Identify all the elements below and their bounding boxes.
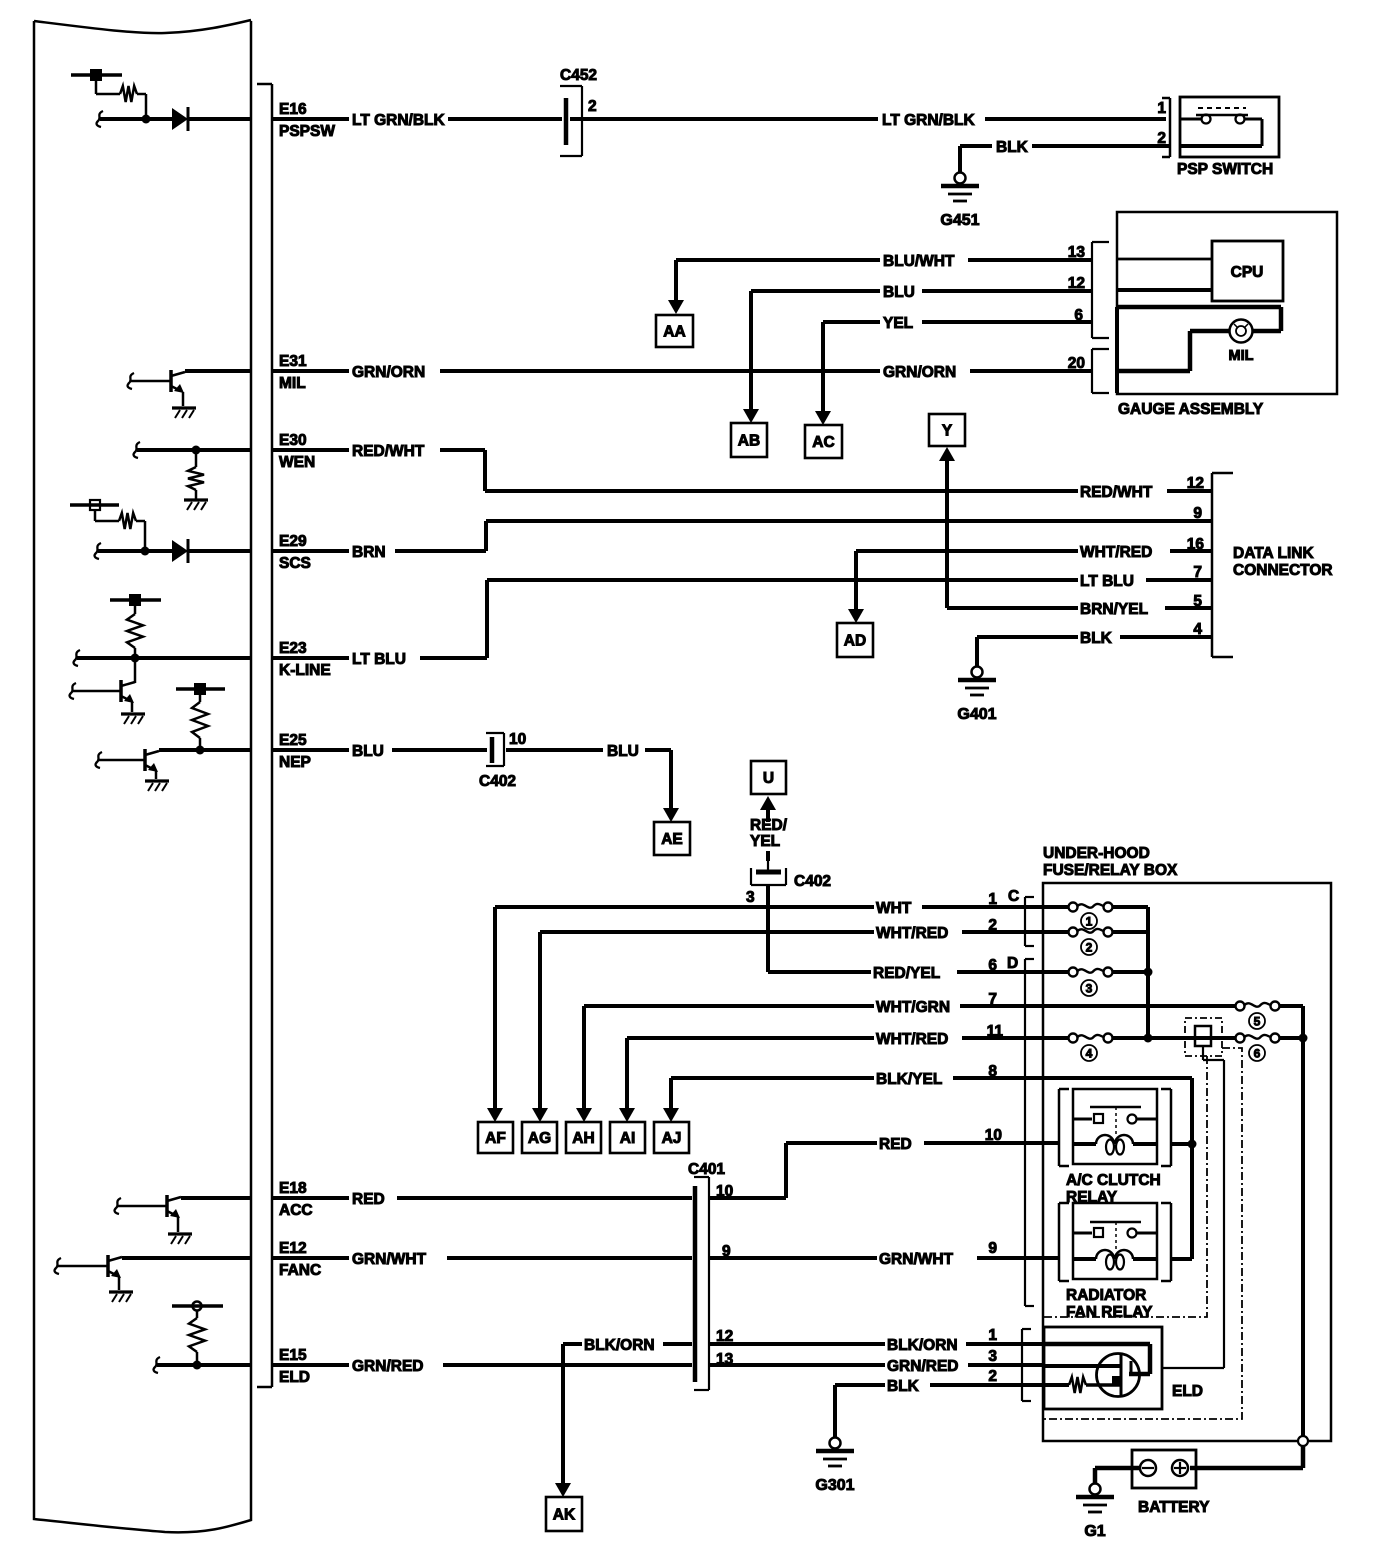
svg-text:E25: E25: [279, 732, 307, 749]
connector AB: [731, 423, 767, 457]
svg-text:MIL: MIL: [1229, 348, 1254, 364]
DLC pin numbers: [1187, 475, 1205, 638]
wire BLU from E25: [273, 743, 487, 760]
svg-text:10: 10: [509, 731, 526, 748]
svg-text:LT BLU: LT BLU: [352, 651, 406, 668]
wire YEL to gauge pin 6: [823, 315, 1092, 332]
svg-text:AK: AK: [553, 1507, 576, 1524]
BLK/YEL bus to relay coils: [1188, 1078, 1197, 1259]
wire LT BLU from E23 to DLC pin 7: [273, 573, 1212, 668]
svg-text:G1: G1: [1084, 1523, 1105, 1540]
transistor driving pin E31 (MIL): [128, 370, 251, 406]
MIL lamp circuit wiring: [1117, 307, 1281, 371]
wire BLU/WHT to gauge pin 13: [676, 253, 1092, 270]
connector C bracket: [1008, 888, 1034, 946]
svg-text:C402: C402: [794, 873, 831, 890]
connector AA: [656, 315, 693, 347]
gauge connector bracket (pins 13,12,6): [1092, 242, 1109, 338]
svg-text:AE: AE: [661, 831, 683, 848]
svg-text:BLK: BLK: [1080, 630, 1113, 647]
connector AK: [546, 1497, 582, 1531]
svg-text:3: 3: [1086, 982, 1093, 996]
fuse 4: [1069, 1034, 1241, 1062]
PSP SWITCH: [1177, 97, 1279, 178]
wire RED/YEL to fuse box pin 6: [768, 885, 1070, 982]
pin E15 (ELD): [279, 1347, 310, 1386]
PSP SWITCH connector pins 1,2: [1157, 98, 1170, 157]
svg-text:2: 2: [588, 98, 597, 115]
DATA LINK CONNECTOR bracket: [1212, 473, 1333, 657]
arrow to AA: [668, 260, 684, 314]
wire RED from E18 via C401 pin 10: [273, 1127, 1059, 1208]
svg-text:6: 6: [1254, 1047, 1261, 1061]
svg-text:C452: C452: [560, 67, 597, 84]
svg-text:C: C: [1008, 888, 1019, 905]
svg-text:E29: E29: [279, 533, 307, 550]
svg-text:7: 7: [1193, 564, 1202, 581]
pin E30 (WEN): [279, 432, 315, 471]
svg-text:E23: E23: [279, 640, 307, 657]
internal pull-up and diode for pin E16: [71, 69, 251, 131]
connector AC: [805, 425, 842, 458]
connector U: [751, 761, 786, 794]
svg-text:LT GRN/BLK: LT GRN/BLK: [882, 112, 976, 129]
svg-text:GRN/RED: GRN/RED: [887, 1358, 958, 1375]
wire BLU to AE: [506, 743, 679, 822]
svg-text:BLK/YEL: BLK/YEL: [876, 1071, 942, 1088]
svg-text:BLK: BLK: [996, 139, 1029, 156]
wire battery negative to G1: [1095, 1468, 1140, 1483]
svg-text:WHT/RED: WHT/RED: [876, 1031, 948, 1048]
svg-text:AI: AI: [620, 1130, 636, 1147]
svg-text:E30: E30: [279, 432, 307, 449]
svg-text:12: 12: [1187, 475, 1204, 492]
wire BLK/ORN via C401 pin 12 to ELD pin 1: [563, 1327, 1043, 1354]
svg-text:10: 10: [985, 1127, 1002, 1144]
svg-text:BLU: BLU: [352, 743, 384, 760]
svg-text:BLU/WHT: BLU/WHT: [883, 253, 955, 270]
wire LT GRN/BLK from E16: [273, 112, 562, 129]
sense resistor on pin E15 (ELD): [154, 1302, 251, 1374]
connector D bracket: [1007, 955, 1034, 1306]
svg-text:PSPSW: PSPSW: [279, 123, 335, 140]
svg-text:GRN/ORN: GRN/ORN: [883, 364, 956, 381]
svg-text:2: 2: [1086, 941, 1093, 955]
svg-text:8: 8: [988, 1063, 997, 1080]
wire BLK from PSP switch pin 2: [960, 139, 1170, 172]
svg-text:1: 1: [1086, 915, 1093, 929]
ECM/PCM torn-edge box: [34, 20, 251, 1532]
svg-text:WHT/GRN: WHT/GRN: [876, 999, 950, 1016]
svg-text:20: 20: [1068, 355, 1085, 372]
svg-text:G451: G451: [940, 212, 979, 229]
connector AH: [566, 1122, 601, 1153]
ground (E12 emitter): [109, 1292, 133, 1302]
RADIATOR FAN RELAY: [1059, 1203, 1192, 1321]
ELD unit: [1044, 1327, 1203, 1409]
svg-text:AJ: AJ: [662, 1130, 682, 1147]
wire RED/YEL up to U: [750, 796, 788, 870]
internal pull-up and diode for pin E29: [70, 500, 251, 563]
svg-text:12: 12: [1068, 275, 1085, 292]
wire WHT/RED to fuse box pin 11: [627, 1031, 1070, 1048]
svg-text:DATA LINK: DATA LINK: [1233, 545, 1314, 562]
svg-text:RED/: RED/: [750, 817, 788, 834]
svg-text:YEL: YEL: [883, 315, 913, 332]
pin E25 (NEP): [279, 732, 311, 771]
svg-text:RED: RED: [352, 1191, 385, 1208]
svg-text:4: 4: [1086, 1047, 1093, 1061]
svg-text:YEL: YEL: [750, 833, 780, 850]
ground G1: [1076, 1484, 1114, 1541]
svg-text:E16: E16: [279, 101, 307, 118]
svg-text:WHT/RED: WHT/RED: [876, 925, 948, 942]
svg-text:RADIATOR: RADIATOR: [1066, 1287, 1146, 1304]
svg-text:2: 2: [988, 917, 997, 934]
arrow to AJ: [663, 1078, 679, 1122]
fuse 5: [1236, 1002, 1304, 1030]
connector AE: [654, 822, 690, 855]
svg-text:11: 11: [987, 1023, 1004, 1040]
svg-text:RED: RED: [879, 1136, 912, 1153]
svg-text:G401: G401: [957, 706, 996, 723]
svg-text:FUSE/RELAY BOX: FUSE/RELAY BOX: [1043, 862, 1178, 879]
transistor driving pin E18 (ACC): [115, 1195, 251, 1232]
connector Y: [929, 414, 965, 446]
svg-text:E18: E18: [279, 1180, 307, 1197]
arrow to AB: [743, 291, 759, 423]
svg-text:RED/WHT: RED/WHT: [1080, 484, 1153, 501]
fuse 2: [1043, 928, 1148, 956]
connector C402 pin 10: [479, 731, 526, 790]
svg-text:WHT: WHT: [876, 900, 912, 917]
svg-text:RED/WHT: RED/WHT: [352, 443, 425, 460]
svg-text:MIL: MIL: [279, 375, 306, 392]
connector C401: [688, 1161, 734, 1390]
wire GRN/WHT from E12 via C401 pin 9: [273, 1240, 1059, 1268]
sensor to ELD link: [1162, 1046, 1224, 1368]
svg-text:K-LINE: K-LINE: [279, 662, 331, 679]
GAUGE ASSEMBLY box: [1117, 212, 1337, 418]
arrow to AH: [576, 1006, 592, 1122]
relay box dash-dot boundary: [1043, 1056, 1207, 1317]
wire BLK to ELD pin 2 and G301: [835, 1368, 1043, 1437]
arrow to AC: [815, 322, 831, 425]
ground G301: [815, 1438, 854, 1495]
gauge connector bracket (pin 20): [1092, 349, 1109, 393]
wire WHT/GRN to fuse 5: [584, 999, 1240, 1016]
svg-text:AF: AF: [485, 1130, 506, 1147]
svg-text:SCS: SCS: [279, 555, 311, 572]
ELD dash-dot boundary: [1041, 1048, 1242, 1419]
svg-text:5: 5: [1193, 593, 1202, 610]
connector AG: [522, 1122, 557, 1153]
svg-text:CPU: CPU: [1231, 264, 1264, 281]
svg-text:AB: AB: [738, 433, 760, 450]
svg-text:CONNECTOR: CONNECTOR: [1233, 562, 1333, 579]
arrow to AF: [487, 907, 503, 1122]
svg-text:Y: Y: [942, 423, 953, 440]
svg-text:GRN/WHT: GRN/WHT: [879, 1251, 954, 1268]
wire RED/WHT from E30 to DLC pin 12: [273, 443, 1212, 501]
BATTERY: [1132, 1450, 1210, 1516]
ELD connector bracket: [1022, 1329, 1031, 1401]
pin E18 (ACC): [279, 1180, 313, 1219]
svg-text:AH: AH: [572, 1130, 594, 1147]
wire WHT/RED to fuse box pin 2: [540, 925, 1070, 942]
svg-text:FANC: FANC: [279, 1262, 321, 1279]
svg-text:13: 13: [1068, 244, 1086, 261]
svg-text:A/C CLUTCH: A/C CLUTCH: [1066, 1172, 1161, 1189]
wire BLK to DLC pin 4: [977, 630, 1212, 666]
svg-text:1: 1: [1157, 100, 1166, 117]
CPU: [1212, 241, 1283, 301]
wire BLK/YEL to fuse box pin 8: [671, 1071, 1192, 1088]
battery feed wire down right side: [1190, 1006, 1308, 1468]
svg-text:9: 9: [722, 1243, 731, 1260]
svg-text:D: D: [1007, 955, 1018, 972]
svg-text:4: 4: [1193, 621, 1202, 638]
connector AI: [610, 1122, 645, 1153]
svg-text:BLK/ORN: BLK/ORN: [887, 1337, 958, 1354]
svg-text:7: 7: [988, 991, 997, 1008]
wire to CPU pin 12: [1117, 288, 1212, 292]
svg-text:3: 3: [746, 889, 755, 906]
svg-text:10: 10: [716, 1183, 733, 1200]
connector AJ: [654, 1122, 689, 1153]
pin E23 (K-LINE): [279, 640, 331, 679]
svg-text:E15: E15: [279, 1347, 307, 1364]
svg-text:RED/YEL: RED/YEL: [873, 965, 940, 982]
fuse 6: [1236, 1034, 1304, 1062]
svg-text:9: 9: [988, 1240, 997, 1257]
current sensor (ELD): [1185, 1018, 1222, 1056]
svg-text:ELD: ELD: [279, 1369, 310, 1386]
svg-text:LT BLU: LT BLU: [1080, 573, 1134, 590]
svg-text:BLK/ORN: BLK/ORN: [584, 1337, 655, 1354]
ground (E31 emitter): [172, 408, 196, 418]
svg-text:ELD: ELD: [1172, 1383, 1203, 1400]
connector AF: [478, 1122, 513, 1153]
ground (E25 transistor): [145, 781, 169, 791]
svg-text:NEP: NEP: [279, 754, 311, 771]
wire BLU to gauge pin 12: [751, 284, 1092, 301]
pull-down resistor on pin E30: [134, 442, 251, 499]
svg-text:1: 1: [988, 891, 997, 908]
svg-text:E31: E31: [279, 353, 307, 370]
connector AD: [837, 623, 873, 657]
svg-text:BRN/YEL: BRN/YEL: [1080, 601, 1148, 618]
MIL indicator lamp: [1229, 320, 1254, 365]
svg-text:GRN/RED: GRN/RED: [352, 1358, 423, 1375]
svg-text:GRN/WHT: GRN/WHT: [352, 1251, 427, 1268]
ground (E18 emitter): [168, 1234, 192, 1244]
svg-text:UNDER-HOOD: UNDER-HOOD: [1043, 845, 1150, 862]
svg-text:3: 3: [988, 1348, 997, 1365]
connector C452 pin 2: [560, 67, 597, 156]
svg-text:GAUGE ASSEMBLY: GAUGE ASSEMBLY: [1118, 401, 1264, 418]
svg-text:ACC: ACC: [279, 1202, 313, 1219]
svg-text:6: 6: [1074, 307, 1083, 324]
svg-text:C401: C401: [688, 1161, 725, 1178]
svg-text:BRN: BRN: [352, 544, 386, 561]
svg-text:BLU: BLU: [883, 284, 915, 301]
arrow to AK: [555, 1344, 571, 1497]
ground G451: [940, 173, 979, 230]
pin E31 (MIL): [279, 353, 307, 392]
connector C402 pin 3: [746, 868, 831, 906]
wire to CPU pin 13: [1117, 258, 1212, 261]
wire BRN/YEL to DLC pin 5 and Y: [939, 447, 1212, 618]
bus from fuses 1-3: [1144, 907, 1153, 1043]
A/C CLUTCH RELAY: [1059, 1089, 1192, 1206]
svg-text:E12: E12: [279, 1240, 307, 1257]
svg-text:BLU: BLU: [607, 743, 639, 760]
UNDER-HOOD FUSE/RELAY BOX outline: [1043, 845, 1331, 1441]
wire GRN/RED from E15 via C401 pin 13 to ELD pin 3: [273, 1348, 1043, 1375]
svg-text:16: 16: [1187, 536, 1205, 553]
svg-text:5: 5: [1254, 1015, 1261, 1029]
svg-text:2: 2: [988, 1368, 997, 1385]
wire (pin 9) from E29 BRN: [273, 521, 1212, 561]
pin E16 (PSPSW): [279, 101, 335, 140]
svg-text:6: 6: [988, 957, 997, 974]
wire GRN/ORN from E31 to gauge pin 20: [273, 364, 1092, 381]
fuse 1: [1043, 903, 1148, 930]
fuse box pin numbers C1,2 D6,7,11,8: [987, 891, 1004, 1080]
svg-text:AG: AG: [528, 1130, 551, 1147]
svg-text:C402: C402: [479, 773, 516, 790]
svg-text:AA: AA: [663, 324, 685, 341]
ground (E23 transistor): [121, 714, 145, 724]
svg-text:FAN RELAY: FAN RELAY: [1066, 1304, 1153, 1321]
fuse 3: [1043, 968, 1148, 997]
wire WHT to fuse box pin 1: [495, 900, 1070, 917]
pin E12 (FANC): [279, 1240, 321, 1279]
svg-text:9: 9: [1193, 505, 1202, 522]
svg-text:1: 1: [988, 1327, 997, 1344]
svg-text:AD: AD: [844, 633, 866, 650]
svg-text:U: U: [763, 770, 774, 787]
gauge connector pin numbers: [1068, 244, 1086, 372]
transistor driving pin E12 (FANC): [55, 1255, 251, 1290]
ground G401: [957, 667, 996, 724]
svg-text:LT GRN/BLK: LT GRN/BLK: [352, 112, 446, 129]
pin E29 (SCS): [279, 533, 311, 572]
svg-text:PSP SWITCH: PSP SWITCH: [1177, 161, 1273, 178]
svg-text:BATTERY: BATTERY: [1138, 1499, 1210, 1516]
arrow to AI: [619, 1038, 635, 1122]
svg-text:G301: G301: [815, 1477, 854, 1494]
svg-text:BLK: BLK: [887, 1378, 920, 1395]
wire WHT/RED to DLC pin 16 and AD: [848, 544, 1212, 623]
pull-up resistor and transistor on pin E23 (K-LINE): [70, 594, 251, 712]
wire LT GRN/BLK to PSP switch pin 1: [570, 112, 1166, 129]
svg-text:GRN/ORN: GRN/ORN: [352, 364, 425, 381]
svg-text:WHT/RED: WHT/RED: [1080, 544, 1152, 561]
svg-text:WEN: WEN: [279, 454, 315, 471]
ground (E30 resistor): [184, 500, 208, 510]
pull-up resistor and transistor on pin E25 (NEP): [96, 683, 251, 779]
svg-text:AC: AC: [812, 434, 834, 451]
ECM connector bar: [257, 84, 272, 1387]
arrow to AG: [532, 932, 548, 1122]
